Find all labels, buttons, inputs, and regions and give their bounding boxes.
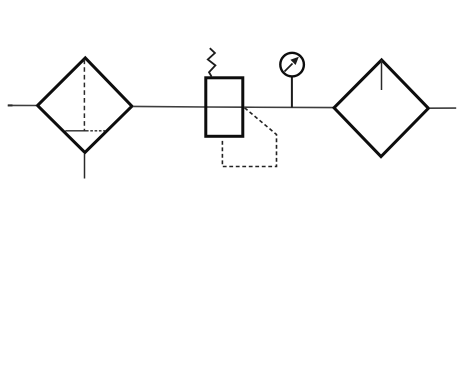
wire: filter to regulator <box>133 105 206 108</box>
wire: regulator to lubricator <box>244 106 333 108</box>
pilot line (dashed feedback loop) <box>222 108 276 167</box>
lubricator drip line (vertical) <box>381 60 383 90</box>
gauge needle arrow <box>285 64 293 72</box>
drain line below filter <box>84 154 86 179</box>
lubricator LUB1 (diamond) <box>334 60 428 157</box>
gauge stem wire <box>291 77 293 108</box>
wire start tick <box>8 104 13 106</box>
filter FIL1 (diamond) <box>38 58 132 153</box>
filter sump line (horizontal solid part) <box>65 130 86 132</box>
pressure gauge G1 (circle) <box>280 53 304 77</box>
wire: inlet stub left <box>8 104 36 106</box>
spring (zigzag) on regulator <box>208 48 216 76</box>
regulator REG1 (rectangle body) <box>206 78 243 137</box>
filter sump line (horizontal dotted part) <box>86 130 106 132</box>
filter element (dashed vertical line) <box>83 60 85 131</box>
wire: line through regulator body <box>206 106 244 108</box>
wire: outlet stub right <box>430 107 456 109</box>
